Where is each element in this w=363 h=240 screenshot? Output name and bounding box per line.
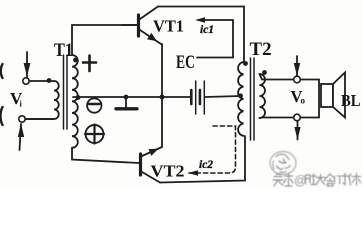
transformer T2 secondary winding [260, 74, 266, 118]
node center tap dot [76, 95, 81, 100]
label ic2 [199, 159, 213, 171]
svg-text:o: o [301, 96, 306, 106]
wire secondary bottom to VT2 base [72, 148, 139, 163]
T2 secondary top dot [262, 70, 267, 75]
label BL [341, 91, 361, 110]
wire to speaker bottom [300, 117, 319, 119]
label VT2 [151, 162, 185, 181]
svg-text:IT: IT [333, 175, 343, 187]
wire input top [29, 80, 54, 82]
speaker joining bar [318, 80, 320, 118]
T2 center tap dot [238, 93, 243, 98]
transformer T2 core [250, 58, 252, 140]
input terminal top [23, 78, 29, 84]
node primary dot [47, 78, 52, 83]
circled plus mark [85, 125, 104, 144]
plus polarity mark [83, 56, 96, 72]
circled minus mark [87, 98, 101, 112]
transformer T1 secondary winding [72, 55, 78, 148]
input terminal bottom [19, 116, 25, 122]
wire input bottom [25, 118, 54, 120]
watermark logo [270, 152, 296, 175]
current loop ic2 dashed [188, 126, 236, 176]
label T2 [250, 40, 272, 60]
input arrow top [24, 52, 31, 77]
edge mark top-left [1, 64, 3, 78]
wire secondary top to VT1 base [72, 25, 137, 55]
output arrow bottom [294, 121, 300, 140]
transformer T1 core [63, 55, 65, 129]
battery EC [191, 81, 240, 114]
label Vi [10, 89, 23, 109]
svg-text:BL: BL [341, 91, 361, 110]
watermark text [273, 174, 361, 187]
transformer T1 primary winding [25, 81, 59, 119]
svg-text:ic2: ic2 [199, 159, 213, 171]
ground [116, 95, 137, 109]
output arrow top [294, 56, 300, 76]
speaker BL [321, 73, 345, 118]
label ic1 [200, 24, 214, 36]
T2 primary top dot [243, 61, 248, 66]
wire top rail collector VT1 to T2 [158, 7, 244, 63]
label VT1 [153, 17, 184, 36]
transistor VT2 [141, 147, 163, 183]
label T1 [54, 41, 73, 61]
transformer T2 primary winding [238, 62, 243, 136]
node emitter junction dot [160, 95, 165, 100]
edge mark bottom-left [0, 107, 2, 125]
svg-text:VT2: VT2 [151, 162, 185, 181]
wire emitter junction vertical [161, 44, 163, 147]
svg-text:ic1: ic1 [200, 24, 214, 36]
wire bottom rail collector VT2 to T2 [160, 136, 245, 183]
svg-text:T2: T2 [250, 40, 272, 60]
wire T2 secondary bottom to output [260, 117, 294, 120]
current loop ic1 [195, 17, 233, 57]
svg-text:EC: EC [176, 53, 195, 73]
svg-text:T1: T1 [54, 41, 73, 61]
output terminal top [294, 76, 301, 83]
transistor VT1 [122, 7, 161, 45]
wire center tap to battery [73, 96, 190, 98]
output terminal bottom [294, 114, 301, 121]
wire T2 secondary top to output [260, 74, 294, 80]
wire to speaker top [300, 79, 319, 81]
svg-text:VT1: VT1 [153, 17, 184, 36]
label Vo [291, 87, 306, 106]
input arrow bottom [18, 124, 24, 151]
svg-text:@: @ [294, 174, 307, 188]
label EC [176, 53, 195, 73]
secondary top polarity dot [73, 58, 78, 63]
